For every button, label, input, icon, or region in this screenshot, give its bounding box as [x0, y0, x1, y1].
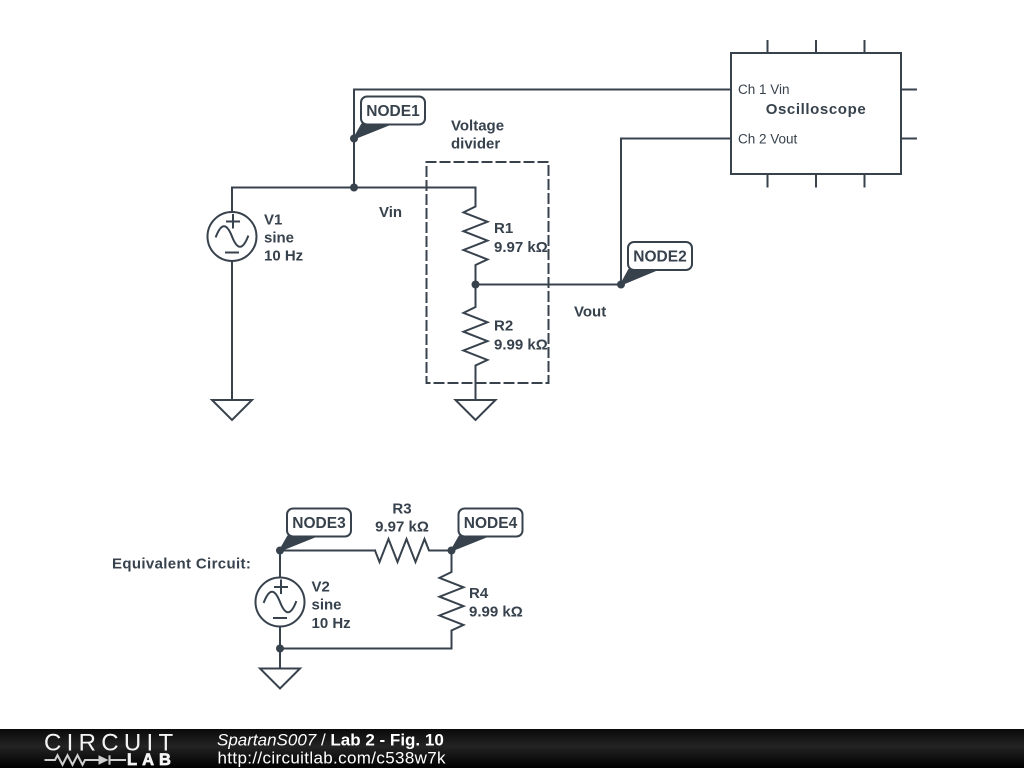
- node label NODE2: [621, 242, 692, 285]
- node dot NODE3: [276, 547, 284, 555]
- resistor R4: [440, 551, 464, 649]
- dashed box voltage divider: [427, 162, 549, 383]
- wire R1-R2 junction to NODE2: [476, 284, 622, 286]
- wire equivalent circuit bottom rail: [280, 648, 452, 650]
- label R2 value: [494, 318, 548, 354]
- logo resistor-diode symbol: [45, 755, 127, 765]
- ground below V1: [212, 400, 252, 420]
- oscilloscope top pins: [768, 41, 865, 53]
- junction dot at NODE1 column and main wire: [350, 184, 358, 192]
- svg-text:divider: divider: [451, 136, 500, 153]
- node label NODE1: [354, 97, 425, 139]
- svg-text:V1: V1: [264, 212, 282, 229]
- wire main horizontal V1 to R1: [232, 187, 476, 189]
- wire equivalent circuit top rail: [280, 550, 375, 552]
- wire V2 top lead: [279, 551, 281, 578]
- node label NODE4: [452, 509, 523, 551]
- ground below R2: [456, 400, 496, 420]
- oscilloscope bottom pins: [768, 174, 865, 187]
- oscilloscope right pins: [901, 90, 916, 139]
- svg-text:10 Hz: 10 Hz: [264, 248, 303, 265]
- label R3 value: [375, 501, 429, 536]
- svg-text:R4: R4: [469, 585, 489, 602]
- svg-text:NODE3: NODE3: [292, 515, 346, 532]
- svg-text:NODE4: NODE4: [464, 515, 518, 532]
- svg-text:LAB: LAB: [127, 751, 176, 768]
- resistor R3: [375, 539, 452, 562]
- junction dot bottom rail: [276, 645, 284, 653]
- svg-text:R3: R3: [392, 501, 411, 518]
- svg-text:Voltage: Voltage: [451, 118, 504, 135]
- svg-text:V2: V2: [312, 579, 330, 596]
- svg-text:Equivalent Circuit:: Equivalent Circuit:: [112, 556, 251, 573]
- svg-text:http://circuitlab.com/c538w7k: http://circuitlab.com/c538w7k: [218, 749, 447, 768]
- junction dot R1-R2: [472, 281, 480, 289]
- node label NODE3: [280, 509, 351, 551]
- resistor R2: [464, 285, 488, 401]
- wire V1 top lead: [231, 188, 233, 213]
- label Voltage divider: [451, 118, 504, 153]
- wire NODE2 up to scope Ch2: [621, 139, 731, 285]
- wire top horizontal NODE1 to scope Ch1: [354, 90, 731, 188]
- label R1 value: [494, 220, 548, 256]
- wire V2 bottom lead: [279, 627, 281, 649]
- svg-text:9.97 kΩ: 9.97 kΩ: [375, 519, 429, 536]
- footer bar: [0, 729, 1024, 768]
- wire V1 bottom lead: [231, 261, 233, 400]
- svg-text:sine: sine: [264, 230, 294, 247]
- svg-text:R2: R2: [494, 318, 513, 335]
- voltage source V2: [256, 578, 305, 627]
- label R4 value: [469, 585, 523, 621]
- oscilloscope box: [731, 53, 901, 174]
- svg-text:R1: R1: [494, 220, 513, 237]
- svg-text:9.97 kΩ: 9.97 kΩ: [494, 239, 548, 256]
- svg-text:10 Hz: 10 Hz: [312, 615, 351, 632]
- svg-text:NODE2: NODE2: [633, 249, 686, 266]
- svg-text:Ch 2 Vout: Ch 2 Vout: [738, 132, 798, 147]
- wire ground lead V2: [279, 649, 281, 669]
- svg-text:Ch 1 Vin: Ch 1 Vin: [738, 82, 790, 97]
- resistor R1: [464, 188, 488, 285]
- svg-text:SpartanS007 / Lab 2 - Fig. 10: SpartanS007 / Lab 2 - Fig. 10: [217, 731, 444, 750]
- ground below V2: [260, 669, 300, 689]
- node dot NODE2: [617, 281, 625, 289]
- svg-text:Vout: Vout: [574, 304, 606, 321]
- svg-text:Vin: Vin: [379, 204, 402, 221]
- voltage source V1: [208, 212, 257, 261]
- label V2 value: [312, 579, 351, 633]
- svg-text:sine: sine: [312, 597, 342, 614]
- svg-text:NODE1: NODE1: [366, 103, 420, 120]
- oscilloscope labels: [738, 82, 866, 147]
- svg-text:Oscilloscope: Oscilloscope: [766, 101, 867, 118]
- node dot NODE1: [350, 135, 358, 143]
- label V1 value: [264, 212, 303, 265]
- svg-text:9.99 kΩ: 9.99 kΩ: [469, 604, 523, 621]
- node dot NODE4: [448, 547, 456, 555]
- svg-text:9.99 kΩ: 9.99 kΩ: [494, 337, 548, 354]
